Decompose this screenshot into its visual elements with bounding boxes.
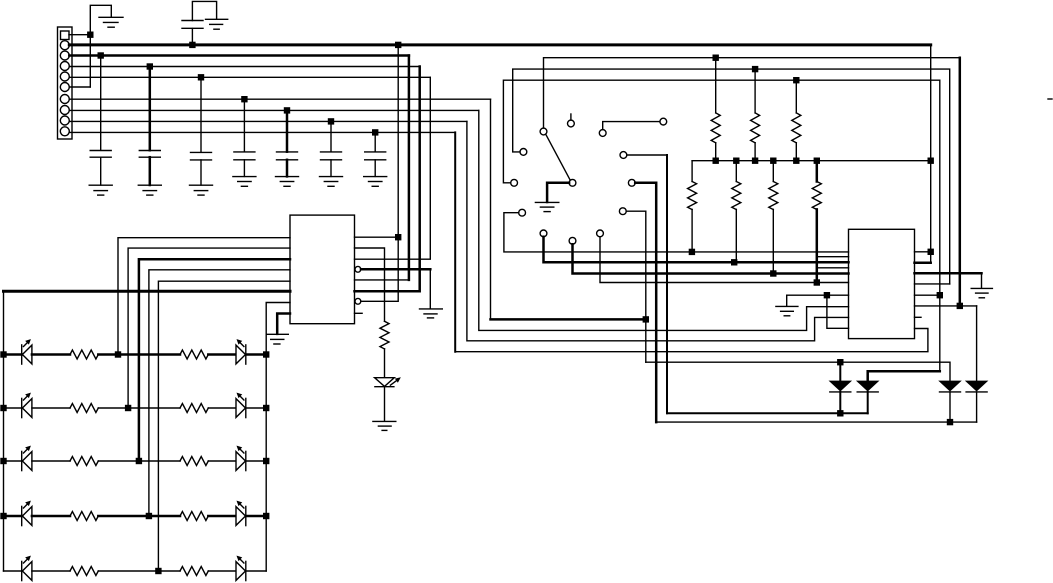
wire U1 left pin B to LED row2 column xyxy=(128,248,290,405)
switch S1 terminal c1 (common) xyxy=(540,128,547,135)
node gnd-net branch junction xyxy=(824,292,830,298)
LED D13 cathode bar xyxy=(245,398,247,417)
resistor R10 xyxy=(70,567,98,576)
resistor Rt3 lead bottom xyxy=(795,143,797,161)
wire riser to U1 bubble pin xyxy=(361,237,398,301)
resistor Rb3 xyxy=(769,182,778,210)
LED D11 xyxy=(236,345,246,364)
resistor bus (VCC rail) xyxy=(692,160,931,162)
node row5/column junction xyxy=(155,568,161,574)
LED D15 xyxy=(236,452,246,471)
LED D16 xyxy=(22,507,32,526)
capacitor C4 lead bottom xyxy=(243,160,245,177)
node L2/Rb2 junction xyxy=(731,259,737,265)
LED D10 cathode bar xyxy=(21,345,23,364)
ground G15 right of U2 xyxy=(971,287,992,289)
resistor R9 xyxy=(180,512,208,521)
diode D1 xyxy=(830,381,851,391)
LED D19 xyxy=(236,562,246,581)
resistor R1 xyxy=(380,321,389,349)
IC U1 body xyxy=(290,215,355,324)
wire c14 to U2 (net L4) xyxy=(600,237,849,283)
wire gnd stem xyxy=(786,295,788,306)
wire row3 left xyxy=(4,460,22,462)
resistor R7 xyxy=(180,457,208,466)
LED D11 arrow xyxy=(239,341,244,346)
switch S1 lever xyxy=(546,134,570,179)
LED D18 xyxy=(22,562,32,581)
node Rt1/bus junction xyxy=(713,158,719,164)
wire U2 right pin 283.9 to net K2 riser xyxy=(915,283,950,285)
bus line P8 xyxy=(69,109,479,111)
wire U1 right pin 3 to P5 drop xyxy=(355,77,431,259)
diode D3 cathode bar xyxy=(940,391,961,393)
LED D15 cathode bar xyxy=(245,451,247,470)
wire c1 riser to net K1 xyxy=(544,58,960,128)
wire D16 to R8 xyxy=(32,515,70,518)
node right bus row1 xyxy=(263,351,269,357)
node right bus row2 xyxy=(263,405,269,411)
wire U1 right pin 4 to P3 drop xyxy=(355,279,409,281)
node P9/C6 junction xyxy=(328,118,334,124)
wire U1 left pin E to LED row5 column xyxy=(158,281,290,568)
resistor Rt1 lead top xyxy=(715,58,717,113)
switch terminal c9 xyxy=(628,179,635,186)
resistor Rt1 lead bottom xyxy=(715,143,717,161)
resistor Rb2 lead top xyxy=(735,161,737,182)
node K1/Rt1 junction xyxy=(713,55,719,61)
wire U1 left pin H to ground (thick) xyxy=(277,314,290,334)
wire U2 right pin 273.2 to ground (thick) xyxy=(915,272,982,275)
wire c5 to net K2 xyxy=(513,69,950,284)
ground G9 under C7 xyxy=(364,176,387,178)
LED D13 xyxy=(236,399,246,418)
wire D10 to R2 xyxy=(32,353,70,356)
capacitor C1 lead top xyxy=(100,56,102,151)
wire R6 to R7 xyxy=(98,460,180,462)
LED D10 xyxy=(22,345,32,364)
resistor Rt1 xyxy=(711,113,720,143)
bus line P5 xyxy=(69,76,430,78)
wire D2 riser xyxy=(939,295,941,371)
resistor Rb1 lead bottom xyxy=(691,209,693,252)
node Rt2/bus junction xyxy=(752,158,758,164)
ground G5 under C3 xyxy=(190,184,213,186)
wire D13 to right bus xyxy=(246,407,266,409)
stub c2 xyxy=(570,114,572,120)
bus line P2 xyxy=(69,43,930,46)
connector J1 pin 9 xyxy=(60,116,69,125)
capacitor C8 lead lower xyxy=(191,29,193,45)
LED D18 arrow xyxy=(24,558,29,563)
node right bus row3 xyxy=(263,458,269,464)
LED D18 cathode bar xyxy=(21,561,23,580)
wire U1 left pin F to LED matrix left bus (thick) xyxy=(4,290,291,293)
diode D2 xyxy=(857,381,878,391)
wire U1 left pin G to LED matrix right bus xyxy=(266,303,290,352)
wire R3 to LED D11 xyxy=(208,353,236,356)
connector J1 pin 1 (square) xyxy=(61,31,70,40)
wire diode net B (c9 net horizontal) xyxy=(656,421,976,423)
connector J1 pin 8 xyxy=(60,106,69,115)
wire row4 left xyxy=(4,515,22,518)
node P2/U1 riser junction xyxy=(395,42,401,48)
capacitor C1 lead bottom xyxy=(100,157,102,185)
tick right edge xyxy=(1048,98,1052,100)
wire D18 to R10 xyxy=(32,570,70,572)
node row4/column junction xyxy=(146,513,152,519)
node P7/C4 junction xyxy=(241,96,247,102)
LED D11 cathode bar xyxy=(245,345,247,364)
bubble U1 output B xyxy=(355,298,361,304)
ground G13 under switch xyxy=(535,201,558,203)
LED D14 arrow xyxy=(24,448,29,453)
wire R5 to LED D13 xyxy=(208,407,236,409)
switch terminal c14 xyxy=(597,230,604,237)
switch terminal c3 xyxy=(599,130,606,137)
wire D3 cathode lead xyxy=(949,392,951,422)
resistor Rb2 xyxy=(732,182,741,210)
switch terminal c7 xyxy=(511,179,518,186)
wire U1 left pin C to LED row3 column (thick) xyxy=(139,259,290,458)
ground G8 under C6 xyxy=(320,176,343,178)
switch terminal c5 xyxy=(520,149,527,156)
wire ground drop xyxy=(429,269,431,308)
node U1 pin1 riser junction xyxy=(395,234,401,240)
capacitor C3 lead top xyxy=(200,77,202,152)
resistor R3 xyxy=(180,350,208,359)
node D3/net junction xyxy=(947,419,953,425)
capacitor C2 plates xyxy=(139,150,160,152)
node left bus row2 xyxy=(0,405,6,411)
wire row1 left xyxy=(4,353,22,356)
wire branch to U2 pin 328 xyxy=(827,295,849,328)
connector J1 pin 2 xyxy=(60,41,69,50)
capacitor C7 plates xyxy=(365,151,386,153)
wire row2 left xyxy=(4,407,22,409)
diode D1 cathode bar xyxy=(830,391,851,393)
bus line P7 xyxy=(69,98,490,100)
resistor Rt2 xyxy=(751,113,760,143)
capacitor C8 lead upper to ground xyxy=(192,1,216,20)
LED D12 arrow xyxy=(24,395,29,400)
node pin305/K1 riser junction xyxy=(957,303,963,309)
node L1/Rb1 junction xyxy=(689,249,695,255)
LED D10 arrow xyxy=(24,341,29,346)
wire R4 to R5 xyxy=(98,407,180,409)
wire R8 to R9 xyxy=(98,515,180,518)
node row2/column junction xyxy=(125,405,131,411)
LED D16 arrow xyxy=(24,503,29,508)
diode D4 cathode bar xyxy=(966,391,987,393)
resistor R5 xyxy=(180,404,208,413)
node L3/Rb3 junction xyxy=(770,270,776,276)
wire P2 riser vertical xyxy=(397,45,399,237)
resistor Rb3 lead bottom xyxy=(772,209,774,273)
node pin295/K3 riser junction xyxy=(937,292,943,298)
wire D11 to right bus xyxy=(246,353,266,356)
node left bus row3 xyxy=(0,458,6,464)
LED D19 cathode bar xyxy=(245,561,247,580)
wire D4 cathode lead xyxy=(976,392,978,422)
node D1/net junction top xyxy=(837,359,843,365)
ground G6 under C4 xyxy=(233,176,256,178)
LED D5 xyxy=(375,378,395,387)
switch terminal c13 xyxy=(569,237,576,244)
capacitor C2 lead top xyxy=(149,67,152,151)
wire D5 to ground xyxy=(384,387,386,422)
wire U2 right pin 295.2 to diode D2 xyxy=(915,294,940,296)
ground G3 under C1 xyxy=(89,184,112,186)
resistor Rt3 xyxy=(792,113,801,143)
node P2/C8 cap junction xyxy=(189,42,195,48)
wire U1 bubble A to ground drop (thick) xyxy=(361,268,430,271)
LED D19 arrow xyxy=(239,558,244,563)
wire pin1 ground riser xyxy=(90,5,111,34)
LED D14 cathode bar xyxy=(21,451,23,470)
wire c11 down to diode net xyxy=(626,211,646,362)
wire LED matrix right bus xyxy=(265,355,267,572)
node pin1 junction xyxy=(87,32,93,38)
LED D17 arrow xyxy=(239,503,244,508)
wire pin6 to ground net xyxy=(69,86,90,88)
resistor Rb4 xyxy=(812,182,821,210)
node P3/C1 junction xyxy=(98,52,104,58)
wire D15 to right bus xyxy=(246,460,266,462)
switch terminal c10 xyxy=(519,209,526,216)
ground G4 under C2 xyxy=(138,184,161,186)
bus line P9 xyxy=(69,120,467,122)
LED D12 xyxy=(22,399,32,418)
capacitor C3 plates xyxy=(191,151,212,153)
node L4/Rb4 junction xyxy=(814,279,820,285)
capacitor C7 lead top xyxy=(374,132,376,151)
ground G2 top-middle xyxy=(206,18,228,20)
LED D15 arrow xyxy=(239,448,244,453)
node c11/P7 junction xyxy=(643,316,649,322)
wire c3 to c4 xyxy=(603,122,660,130)
wire D14 to R6 xyxy=(32,460,70,462)
capacitor C5 lead bottom xyxy=(286,160,289,177)
node P4/C2 junction xyxy=(147,63,153,69)
wire P7 chain: bus to c11 node (thick horizontal) xyxy=(490,99,492,319)
capacitor C5 lead top xyxy=(286,110,289,151)
resistor Rb1 lead top xyxy=(691,161,693,182)
wire c8 to ground (thick) xyxy=(547,183,569,202)
node row1/column junction xyxy=(115,351,121,357)
wire U2 right pin 262.7 (thick) xyxy=(915,261,931,264)
wire pin1-pin6 vertical xyxy=(89,35,91,87)
bus line P4 xyxy=(69,66,419,68)
node Rb4/bus junction xyxy=(814,158,820,164)
LED D12 cathode bar xyxy=(21,398,23,417)
wire U2 left pin gnd net xyxy=(787,294,849,296)
wire diode net A (c6 net horizontal) xyxy=(667,412,868,414)
resistor R11 xyxy=(180,567,208,576)
switch terminal c12 xyxy=(540,230,547,237)
resistor R8 xyxy=(70,512,98,521)
wire c9 down (thick) xyxy=(635,183,656,422)
capacitor C1 plates xyxy=(90,150,111,152)
wire U1 left pin A to LED row1 column xyxy=(118,238,290,352)
wire D2 top link (thick) xyxy=(868,371,940,381)
bus line P10 xyxy=(69,131,455,133)
IC U2 body xyxy=(849,229,915,338)
wire c12 to U2 (net L2 thick) xyxy=(544,237,849,262)
ground G14 left of U2 xyxy=(776,305,798,307)
connector J1 pin 10 xyxy=(60,127,69,136)
node left bus row1 xyxy=(0,351,6,357)
wire pin1 to ground net xyxy=(69,34,90,36)
stub U2 right pin 317.3 xyxy=(915,316,922,318)
switch terminal c6 xyxy=(620,152,627,159)
resistor Rb2 lead bottom xyxy=(735,209,737,262)
wire U1 right pin 2 to resistor R1 xyxy=(355,248,385,321)
connector J1 pin 7 xyxy=(60,95,69,104)
wire P10 chain to U2 right pin 328.5 xyxy=(454,132,456,351)
capacitor C6 lead bottom xyxy=(330,160,332,177)
resistor R2 xyxy=(70,350,98,359)
capacitor C4 lead top xyxy=(243,99,245,152)
capacitor C5 plates xyxy=(277,151,298,153)
wire R9 to LED D17 xyxy=(208,515,236,518)
wire c7 to net K3 xyxy=(503,80,939,295)
node P8/C5 junction xyxy=(284,107,290,113)
node row3/column junction xyxy=(136,458,142,464)
wire U1 right pin 5 to P4 drop (thick) xyxy=(355,67,420,292)
connector J1 pin 3 xyxy=(60,51,69,60)
wire P2 right riser xyxy=(930,45,932,263)
bubble U1 output A xyxy=(355,266,361,272)
connector J1 pin 6 xyxy=(60,83,69,92)
node K3/Rt3 junction xyxy=(793,77,799,83)
resistor Rb3 lead top xyxy=(772,161,774,182)
switch terminal c8 (to ground) xyxy=(569,179,576,186)
wire R7 to LED D15 xyxy=(208,460,236,462)
wire P9 chain to U2 pin 317.4 xyxy=(467,121,849,340)
wire D17 to right bus xyxy=(246,515,266,518)
wire c13 to U2 (net L3 thick) xyxy=(573,244,849,273)
wire row5 left xyxy=(4,570,22,572)
stub U1 bottom right pin xyxy=(355,312,363,314)
node P5/C3 junction xyxy=(198,74,204,80)
wire P8 chain to U2 pin 306.7 xyxy=(479,110,849,330)
resistor Rb4 lead top xyxy=(816,161,819,182)
diode D4 xyxy=(966,381,987,391)
resistor R4 xyxy=(70,404,98,413)
wire D1 cathode lead xyxy=(839,392,841,413)
wire D2 cathode lead xyxy=(867,392,869,413)
LED D5 arrow xyxy=(390,380,398,386)
ground G10 below U1 xyxy=(267,333,289,335)
wire U1 right pin 1 to P2 riser xyxy=(355,236,399,238)
wire U1 left pin D to LED row4 column xyxy=(149,270,290,513)
wire D4 riser xyxy=(976,306,978,381)
stub U2 left pin s2 xyxy=(817,267,848,269)
capacitor C6 plates xyxy=(321,151,342,153)
node Rb3/bus junction xyxy=(770,158,776,164)
wire c11 net to D3 xyxy=(646,362,950,381)
ground G1 top-left xyxy=(99,16,123,18)
capacitor C4 plates xyxy=(234,151,255,153)
node K2/Rt2 junction xyxy=(752,66,758,72)
connector J1 body xyxy=(58,27,73,139)
diode D2 cathode bar xyxy=(857,391,878,393)
connector J1 pin 5 xyxy=(60,72,69,81)
connector J1 pin 4 xyxy=(60,62,69,71)
LED D16 cathode bar xyxy=(21,506,23,525)
node bus/P2 riser junction xyxy=(928,158,934,164)
ground G11 under D5 xyxy=(373,420,396,422)
capacitor C2 lead bottom xyxy=(149,157,152,185)
node right bus row4 xyxy=(263,513,269,519)
wire U2 right pin 305.9 xyxy=(915,305,977,307)
wire P3 drop vertical (thick) xyxy=(408,56,411,280)
resistor Rt2 lead top xyxy=(754,69,756,113)
resistor Rb4 lead bottom xyxy=(816,209,819,282)
wire c10 to U2 (net L1) xyxy=(504,213,849,252)
wire D12 to R4 xyxy=(32,407,70,409)
LED D17 xyxy=(236,507,246,526)
resistor Rt3 lead top xyxy=(795,80,797,113)
wire R1 to LED D5 xyxy=(384,349,386,378)
resistor Rt2 lead bottom xyxy=(754,143,756,161)
resistor Rb1 xyxy=(688,182,697,210)
wire R11 to LED D19 xyxy=(208,570,236,572)
wire U2 right pin 251.8 xyxy=(915,251,931,253)
capacitor C6 lead top xyxy=(330,121,332,151)
bus line P3 xyxy=(69,54,409,57)
node riser/U2 pin junction xyxy=(928,249,934,255)
node D1/net junction bottom xyxy=(837,410,843,416)
LED D13 arrow xyxy=(239,395,244,400)
capacitor C7 lead bottom xyxy=(374,160,376,177)
node left bus row4 xyxy=(0,513,6,519)
ground G12 right of U1 xyxy=(420,308,443,310)
resistor R6 xyxy=(70,457,98,466)
node Rb2/bus junction xyxy=(733,158,739,164)
capacitor C3 lead bottom xyxy=(200,160,202,185)
wire c6 to diode row net xyxy=(627,154,667,156)
node Rt3/bus junction xyxy=(793,158,799,164)
wire D1 anode lead xyxy=(839,362,841,381)
ground G7 under C5 xyxy=(276,176,299,178)
switch terminal c4 xyxy=(660,118,667,125)
LED D14 xyxy=(22,452,32,471)
stub U2 left pin s1 xyxy=(817,256,848,258)
switch terminal c2 xyxy=(568,120,575,127)
LED D17 cathode bar xyxy=(245,506,247,525)
diode D3 xyxy=(940,381,961,391)
node P10/C7 junction xyxy=(372,129,378,135)
wire D19 to right bus xyxy=(246,570,266,572)
wire R2 to R3 xyxy=(98,353,180,356)
switch terminal c11 xyxy=(619,208,626,215)
wire R10 to R11 xyxy=(98,570,180,572)
capacitor C8 plates xyxy=(182,27,203,29)
